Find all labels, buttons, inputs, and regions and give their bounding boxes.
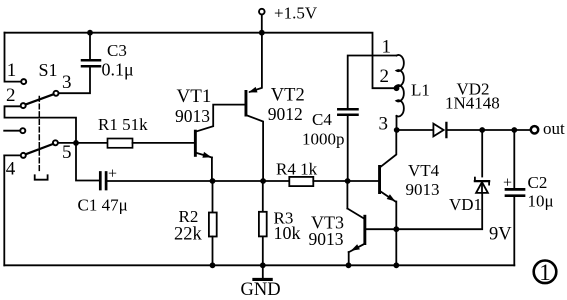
svg-text:9013: 9013 — [175, 106, 210, 126]
node VT3 emitter ground junction — [346, 262, 352, 268]
svg-text:VT4: VT4 — [408, 161, 440, 180]
svg-text:2: 2 — [6, 85, 16, 106]
switch S1 arm 2-3 — [26, 94, 53, 104]
svg-text:S1: S1 — [39, 60, 58, 80]
node C4 rail junction — [345, 178, 351, 184]
node VT1 emitter rail junction — [210, 178, 216, 184]
svg-text:VT1: VT1 — [177, 86, 212, 107]
switch S1 terminal 3 — [54, 91, 59, 96]
capacitor C1 — [100, 173, 106, 190]
node R2 ground junction — [210, 262, 216, 268]
ground rail — [4, 264, 514, 266]
svg-text:+1.5V: +1.5V — [274, 3, 318, 22]
wire out node to VD1 — [481, 130, 483, 177]
transistor VT2 — [245, 33, 264, 181]
wire C1 to emitter rail — [108, 180, 290, 182]
svg-text:9V: 9V — [489, 224, 512, 244]
transistor VT1 — [194, 105, 245, 181]
node R3 ground junction — [260, 262, 266, 268]
svg-text:2: 2 — [380, 66, 390, 87]
svg-text:R4 1k: R4 1k — [276, 160, 318, 179]
ground symbol GND — [254, 265, 271, 279]
node VD1 junction — [479, 127, 485, 133]
wire S1 terminal 3 to C3 — [59, 67, 90, 93]
svg-text:C3: C3 — [107, 41, 127, 60]
resistor R3 — [259, 181, 267, 265]
svg-text:10μ: 10μ — [528, 192, 554, 211]
svg-text:4: 4 — [6, 159, 16, 180]
node +1.5V rail junction — [259, 30, 265, 36]
svg-text:22k: 22k — [174, 225, 203, 245]
resistor R4 — [289, 177, 313, 186]
wire C4 bottom to rail — [347, 116, 349, 181]
figure number circled 1 — [534, 260, 557, 285]
svg-text:0.1μ: 0.1μ — [102, 60, 134, 80]
svg-text:9012: 9012 — [268, 104, 303, 124]
switch S1 terminal 5 — [53, 140, 76, 145]
svg-text:C2: C2 — [528, 173, 548, 192]
svg-text:+: + — [503, 175, 512, 192]
svg-text:5: 5 — [62, 142, 72, 163]
svg-text:+: + — [108, 166, 117, 183]
switch S1 terminal 1 — [21, 79, 26, 84]
svg-text:1: 1 — [539, 260, 551, 285]
wire S1 terminal 2 down left side to node 5 and C1 — [5, 106, 100, 180]
battery terminal +1.5V — [259, 9, 265, 33]
node L1 tap pin 2 — [394, 85, 400, 91]
node 5 junction — [73, 140, 79, 146]
svg-text:9013: 9013 — [406, 180, 440, 199]
node VT3 base VT4 emitter junction — [393, 226, 399, 232]
svg-text:3: 3 — [379, 114, 389, 135]
node VT2 collector rail junction — [260, 178, 266, 184]
wire node 5 to R1 — [76, 142, 108, 144]
inductor L1 — [397, 55, 404, 130]
zener diode VD1 — [475, 178, 489, 193]
switch S1 terminal 2 — [21, 103, 26, 108]
switch S1 arm 4-5 — [26, 144, 53, 154]
capacitor C2 — [506, 130, 524, 265]
capacitor C4 — [338, 109, 357, 115]
transistor VT4 — [378, 130, 396, 265]
svg-text:out: out — [543, 119, 565, 138]
svg-text:R2: R2 — [179, 207, 199, 226]
switch S1 terminal 4 — [4, 153, 26, 158]
svg-text:VD1: VD1 — [449, 195, 482, 214]
svg-text:10k: 10k — [274, 223, 301, 243]
wire VD1 to VT4 emitter node — [396, 193, 482, 229]
wire C4 top to L1 pin 1 — [348, 56, 397, 109]
wire left rail to S1 terminal 1 — [5, 33, 21, 82]
node VT4 emitter ground junction — [393, 262, 399, 268]
wire L1 pin3 to VD2 — [397, 129, 434, 131]
svg-text:9013: 9013 — [309, 229, 344, 249]
svg-text:1: 1 — [7, 60, 16, 81]
wire VT3 collector column — [346, 181, 348, 209]
svg-text:L1: L1 — [411, 81, 430, 100]
resistor R1 — [108, 139, 133, 148]
svg-text:1000p: 1000p — [302, 129, 345, 148]
diode VD2 — [433, 123, 446, 137]
node C2 junction — [511, 127, 517, 133]
node L1 VT4 collector out junction — [394, 127, 400, 133]
svg-text:C1 47μ: C1 47μ — [78, 196, 128, 215]
wire S1 terminal 4 to ground rail — [3, 155, 5, 265]
svg-text:R1 51k: R1 51k — [98, 115, 148, 134]
svg-text:GND: GND — [241, 280, 281, 300]
terminal out — [531, 126, 538, 133]
capacitor C3 — [82, 60, 100, 66]
wire R4 to VT4 base — [313, 180, 378, 182]
svg-text:1N4148: 1N4148 — [445, 94, 500, 113]
wire VD2 to out terminal — [446, 129, 530, 131]
transistor VT3 — [347, 209, 396, 266]
svg-text:VT2: VT2 — [271, 85, 305, 105]
switch S1 middle contact — [4, 128, 25, 133]
resistor R2 — [209, 181, 217, 265]
wire C3 to top rail — [89, 33, 91, 60]
S1 dashed coupling link — [35, 97, 48, 180]
wire top +1.5V rail to L1 tap — [5, 33, 394, 88]
wire R1 to VT1 base — [133, 142, 194, 144]
svg-text:C4: C4 — [312, 110, 332, 129]
svg-text:1: 1 — [382, 36, 392, 57]
svg-text:3: 3 — [62, 72, 72, 93]
node C3 top rail junction — [87, 30, 93, 36]
